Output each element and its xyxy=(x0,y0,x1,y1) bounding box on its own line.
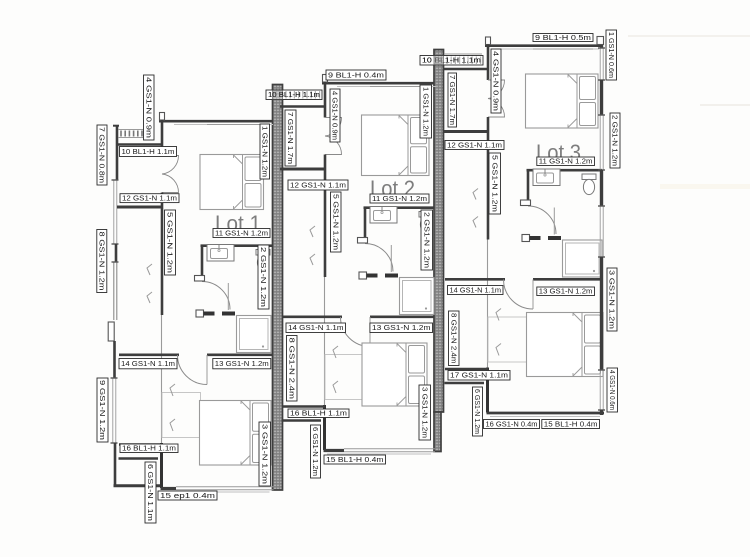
wall lot1 top xyxy=(159,120,273,123)
door lot2 bedroom2 leaf xyxy=(369,317,371,347)
fixture lot3 shower xyxy=(563,240,603,277)
svg-text:1 GS1-N 0.6m: 1 GS1-N 0.6m xyxy=(607,32,614,78)
svg-text:12 GS1-N 1.1m: 12 GS1-N 1.1m xyxy=(447,142,502,149)
wall lot3 partition A upper xyxy=(487,45,490,81)
label lot1 7 GS1-N 0.8m xyxy=(97,125,107,185)
svg-text:12 GS1-N 1.1m: 12 GS1-N 1.1m xyxy=(290,182,346,189)
wall lot1 exterior left seg2 xyxy=(115,244,118,262)
label lot2 14 GS1-N 1.1m xyxy=(286,323,346,333)
svg-text:16 BL1-H 1.1m: 16 BL1-H 1.1m xyxy=(122,446,176,453)
svg-text:8 GS1-N 1.2m: 8 GS1-N 1.2m xyxy=(97,232,104,291)
fixture lot3 wardrobe outline xyxy=(488,317,527,362)
label lot1 15 ep1 0.4m xyxy=(158,491,217,500)
party wall PW2 lower tail xyxy=(434,412,441,452)
svg-text:6 GS1-N 1.2m: 6 GS1-N 1.2m xyxy=(311,427,318,476)
wall lot2 bedroom2 top right xyxy=(370,315,434,318)
wall lot3 bathroom bottom stub right xyxy=(548,236,561,240)
label lot1 1 GS1-N 1.2m xyxy=(260,124,270,179)
wall lot1 bottom-left corner xyxy=(114,484,164,487)
wall lot1 bathroom bottom stub right xyxy=(222,312,235,316)
mark lot2 chevron1 xyxy=(333,346,338,358)
svg-text:15 BL1-H 0.4m: 15 BL1-H 0.4m xyxy=(544,421,598,428)
door lot2 entry double swing xyxy=(325,118,342,155)
svg-text:4 GS1-N 0.9m: 4 GS1-N 0.9m xyxy=(144,77,151,138)
svg-text:12 GS1-N 1.1m: 12 GS1-N 1.1m xyxy=(122,196,177,203)
wall lot3 hall bottom xyxy=(443,130,489,133)
wall lot2 top-left cap xyxy=(323,75,328,83)
svg-text:14 GS1-N 1.1m: 14 GS1-N 1.1m xyxy=(288,325,344,332)
wall lot1 partition A upper xyxy=(161,120,164,156)
label lot2 9 BL1-H 0.4m xyxy=(326,70,386,80)
fixture lot1 wardrobe outline xyxy=(162,393,201,438)
fixture lot1 sink xyxy=(207,245,234,262)
label lot2 6 GS1-N 1.2m xyxy=(311,425,321,478)
furniture lot1 bed2 xyxy=(200,401,272,466)
svg-text:4 GS1-N 0.9m: 4 GS1-N 0.9m xyxy=(331,91,338,140)
svg-text:3 GS1-N 1.2m: 3 GS1-N 1.2m xyxy=(260,424,267,484)
wall lot2 partition A upper xyxy=(324,82,327,118)
label lot1 9 GS1-N 1.2m xyxy=(97,378,108,442)
wall lot1 left top tick xyxy=(113,125,119,127)
wall lot1 exterior left seg4 xyxy=(114,443,117,487)
svg-text:1 GS1-N 1.2m: 1 GS1-N 1.2m xyxy=(260,126,267,177)
wall lot3 right seg2 xyxy=(600,80,603,115)
label lot2 15 BL1-H 0.4m xyxy=(324,455,386,464)
wall lot2 hall bottom xyxy=(280,168,326,171)
label lot1 8 GS1-N 1.2m xyxy=(97,230,107,293)
door lot1 bathroom swing xyxy=(202,282,230,310)
label lot3 1 GS1-N 0.6m xyxy=(606,30,617,80)
mark lot3 chevron4 hallway xyxy=(473,217,478,228)
party wall PW2 (Lot2/Lot3) main xyxy=(434,50,444,413)
mark lot1 chevron3 hallway xyxy=(147,264,152,275)
label lot3 9 BL1-H 0.5m xyxy=(533,34,593,42)
wall lot3 partition A lower xyxy=(487,117,490,240)
label lot1 14 GS1-N 1.1m xyxy=(119,359,177,369)
wall lot1 bathroom bottom stub post xyxy=(196,310,204,317)
wall lot1 bathroom door jamb post xyxy=(195,276,205,282)
wall lot1 bedroom2 top right xyxy=(207,353,273,356)
mark lot1 chevron1 xyxy=(170,384,175,396)
wall lot2 hallway bottom lower xyxy=(282,419,322,421)
label lot2 10 BL1-H 1.1m xyxy=(266,90,322,100)
wall lot1 top-left cap xyxy=(160,113,165,121)
label lot1 3 GS1-N 1.2m xyxy=(259,422,271,486)
svg-text:10 BL1-H 1.1m: 10 BL1-H 1.1m xyxy=(422,58,481,65)
label lot3 10 BL1-H 1.1m xyxy=(420,56,483,66)
svg-text:4 GS1-N 0.9m: 4 GS1-N 0.9m xyxy=(492,51,499,111)
label lot3 5 GS1-N 1.2m xyxy=(489,153,501,214)
wall lot1 partition A lower xyxy=(161,193,164,316)
mark lot3 chevron1 xyxy=(496,309,501,321)
door lot1 entry double swing xyxy=(162,156,179,193)
window lot1 left w2 xyxy=(111,378,118,443)
scan streak 3 xyxy=(660,184,750,189)
party wall PW1 (Lot1/Lot2) xyxy=(273,85,283,491)
wall lot2 bottom window line xyxy=(327,453,431,455)
label lot3 4 GS1-N 0.6m xyxy=(607,368,618,412)
svg-text:11 GS1-N 1.2m: 11 GS1-N 1.2m xyxy=(215,230,268,237)
window lot1 top wall glazing xyxy=(207,124,267,126)
svg-text:16 GS1-N 0.4m: 16 GS1-N 0.4m xyxy=(486,421,538,428)
wall lot2 top window line xyxy=(337,86,436,88)
fixture lot1 toilet xyxy=(256,250,270,271)
label lot3 12 GS1-N 1.1m xyxy=(445,141,504,150)
svg-text:15 ep1 0.4m: 15 ep1 0.4m xyxy=(160,493,215,500)
svg-text:11 GS1-N 1.2m: 11 GS1-N 1.2m xyxy=(539,159,593,166)
label lot3 17 GS1-N 1.1m xyxy=(448,371,510,381)
wall lot3 bathroom door jamb post xyxy=(521,200,531,206)
label lot2 1 GS1-N 1.2m xyxy=(420,85,432,138)
wall lot3 bedroom2 top right xyxy=(533,278,603,281)
label lot2 5 GS1-N 1.2m xyxy=(331,192,342,252)
wall lot3 bedroom2 top left xyxy=(445,278,505,281)
wall lot3 bathroom left xyxy=(527,170,530,206)
window lot2 louvre strip xyxy=(281,92,319,100)
label lot3 6 GS1-N 1.2m xyxy=(473,387,483,436)
label lot1 5 GS1-N 1.2m xyxy=(165,210,176,275)
wall lot1 hallway bottom lower xyxy=(119,457,159,459)
wall lot3 hallway bottom upper xyxy=(445,368,488,370)
wall lot2 partition A lower xyxy=(324,155,327,278)
label lot3 11 GS1-N 1.2m xyxy=(537,157,595,166)
door lot3 bedroom2 swing xyxy=(504,280,534,310)
svg-text:10 BL1-H 1.1m: 10 BL1-H 1.1m xyxy=(268,92,320,99)
door lot3 entry double swing xyxy=(488,80,505,117)
label lot3 13 GS1-N 1.2m xyxy=(537,287,595,296)
wall lot3 right seg3 xyxy=(600,170,603,206)
wall lot3 bedroom2 left thick xyxy=(486,368,489,413)
svg-text:7 GS1-N 1.7m: 7 GS1-N 1.7m xyxy=(448,75,455,125)
svg-text:5 GS1-N 1.2m: 5 GS1-N 1.2m xyxy=(166,212,173,273)
svg-text:5 GS1-N 1.2m: 5 GS1-N 1.2m xyxy=(490,155,497,212)
door lot3 bedroom2 leaf xyxy=(532,280,534,310)
wall lot3 bottom xyxy=(487,412,605,415)
fixture lot2 toilet xyxy=(419,212,433,233)
svg-text:6 GS1-N 1.1m: 6 GS1-N 1.1m xyxy=(146,464,153,521)
door lot2 bathroom leaf xyxy=(390,245,392,272)
label lot1 13 GS1-N 1.2m xyxy=(213,359,271,369)
window lot3 right w4 xyxy=(598,370,605,410)
door lot2 bathroom swing xyxy=(365,244,393,272)
furniture lot2 bed2 xyxy=(362,343,427,406)
label lot3 14 GS1-N 1.1m xyxy=(448,286,504,295)
label lot1 2 GS1-N 1.2m xyxy=(258,245,269,309)
wall lot1 bathroom top xyxy=(201,244,273,247)
label lot2 13 GS1-N 1.2m xyxy=(370,323,433,333)
wall lot1 bedroom2 left thick xyxy=(160,443,163,488)
label lot2 16 BL1-H 1.1m xyxy=(288,409,349,418)
svg-text:13 GS1-N 1.2m: 13 GS1-N 1.2m xyxy=(215,361,269,368)
wall lot1 top window line xyxy=(174,124,273,126)
svg-text:9 BL1-H 0.5m: 9 BL1-H 0.5m xyxy=(535,35,591,42)
wall lot2 bathroom bottom stub right xyxy=(385,274,398,278)
wall lot2 bathroom bottom stub left xyxy=(367,274,378,278)
fixture lot2 sink xyxy=(370,207,397,224)
wall lot2 bathroom bottom stub post xyxy=(359,272,367,279)
svg-text:17 GS1-N 1.1m: 17 GS1-N 1.1m xyxy=(450,373,508,380)
svg-text:13 GS1-N 1.2m: 13 GS1-N 1.2m xyxy=(539,289,593,296)
wall lot3 bathroom bottom stub left xyxy=(530,236,541,240)
svg-text:8 GS1-N 2.4m: 8 GS1-N 2.4m xyxy=(287,338,294,400)
wall lot3 bathroom top xyxy=(527,169,603,172)
window lot3 right w2 xyxy=(598,115,605,170)
furniture lot3 bed2 xyxy=(527,313,604,377)
wall lot1 hall top xyxy=(117,143,162,146)
svg-text:2 GS1-N 1.2m: 2 GS1-N 1.2m xyxy=(611,115,618,166)
label lot3 16 GS1-N 0.4m xyxy=(484,420,540,429)
svg-text:2 GS1-N 1.2m: 2 GS1-N 1.2m xyxy=(259,247,266,307)
furniture lot1 bed1 xyxy=(200,155,264,210)
label lot3 2 GS1-N 1.2m xyxy=(610,113,620,168)
window lot2 louvre dashes over label 10 xyxy=(286,91,320,99)
svg-text:14 GS1-N 1.1m: 14 GS1-N 1.1m xyxy=(450,287,502,294)
svg-text:6 GS1-N 1.2m: 6 GS1-N 1.2m xyxy=(473,389,480,434)
svg-text:9 GS1-N 1.2m: 9 GS1-N 1.2m xyxy=(98,380,105,440)
wall lot1 hall bottom xyxy=(117,206,163,209)
svg-text:7 GS1-N 1.7m: 7 GS1-N 1.7m xyxy=(286,112,293,164)
window lot3 right w3 xyxy=(598,206,605,257)
label lot1 10 BL1-H 1.1m xyxy=(120,147,177,157)
wall lot3 hallway bottom lower xyxy=(445,382,485,384)
mark lot1 chevron2 xyxy=(170,419,175,431)
fixture lot2 wardrobe outline xyxy=(325,355,364,400)
svg-text:14 GS1-N 1.1m: 14 GS1-N 1.1m xyxy=(121,361,175,368)
label lot2 12 GS1-N 1.1m xyxy=(288,180,348,190)
party wall PW1 overlay on lot2 label 10 xyxy=(273,90,283,100)
scan streak 2 xyxy=(700,104,750,106)
svg-text:15 BL1-H 0.4m: 15 BL1-H 0.4m xyxy=(326,457,384,464)
label lot3 3 GS1-N 1.2m xyxy=(607,268,617,331)
door lot1 bedroom2 leaf xyxy=(206,355,208,385)
furniture lot2 bed1 xyxy=(362,115,430,176)
wall lot2 hallway bottom upper xyxy=(282,405,325,407)
wall lot3 top xyxy=(485,44,603,47)
wall lot1 bathroom left xyxy=(201,245,204,281)
label lot3 7 GS1-N 1.7m xyxy=(448,73,457,127)
fixture lot1 shower xyxy=(237,316,272,353)
label lot3 8 GS1-N 2.4m xyxy=(449,311,460,366)
wall lot2 bathroom top xyxy=(364,206,435,209)
mark lot2 chevron2 xyxy=(333,381,338,393)
wall lot3 top-left cap xyxy=(486,37,491,45)
svg-text:3 GS1-N 1.2m: 3 GS1-N 1.2m xyxy=(420,387,427,438)
wall lot2 bedroom2 left thick xyxy=(323,405,326,450)
wall lot1 pier xyxy=(108,322,114,341)
svg-text:13 GS1-N 1.2m: 13 GS1-N 1.2m xyxy=(372,325,431,332)
wall lot3 right seg1 xyxy=(600,45,603,48)
svg-text:16 BL1-H 1.1m: 16 BL1-H 1.1m xyxy=(290,411,347,418)
window lot3 top wall glazing xyxy=(533,48,593,50)
window lot1 left w1b xyxy=(112,262,119,320)
wall lot1 exterior left seg1 xyxy=(116,125,119,180)
wall lot1 bottom thick corner xyxy=(161,487,177,490)
svg-text:10 BL1-H 1.1m: 10 BL1-H 1.1m xyxy=(122,149,175,156)
svg-text:11 GS1-N 1.2m: 11 GS1-N 1.2m xyxy=(372,196,427,203)
svg-text:4 GS1-N 0.6m: 4 GS1-N 0.6m xyxy=(608,370,615,410)
wall lot3 top window line xyxy=(500,48,599,50)
wall lot2 top xyxy=(322,82,434,85)
wall lot1 bottom window line xyxy=(164,491,270,493)
label lot1 4 GS1-N 0.9m xyxy=(144,75,155,140)
window lot1 left w1 xyxy=(112,180,119,244)
wall lot3 partition thin xyxy=(487,240,489,368)
fixture lot2 shower xyxy=(400,278,435,315)
label lot2 7 GS1-N 1.7m xyxy=(285,110,296,166)
fixture lot3 sink xyxy=(533,169,560,186)
door lot1 bathroom leaf xyxy=(227,283,229,310)
label lot2 11 GS1-N 1.2m xyxy=(370,194,429,203)
window lot3 louvre strip xyxy=(444,54,482,62)
label lot1 11 GS1-N 1.2m xyxy=(213,229,270,238)
wall lot3 top-right cap xyxy=(597,37,604,45)
fixture lot3 toilet xyxy=(582,174,596,195)
party wall PW2 overlay on lot3 label 10 xyxy=(434,56,444,66)
wall lot2 bathroom left xyxy=(364,207,367,243)
label lot2 8 GS1-N 2.4m xyxy=(287,336,298,402)
svg-text:5 GS1-N 1.2m: 5 GS1-N 1.2m xyxy=(331,194,338,250)
svg-text:2 GS1-N 1.2m: 2 GS1-N 1.2m xyxy=(422,212,429,268)
svg-text:1 GS1-N 1.2m: 1 GS1-N 1.2m xyxy=(421,87,428,136)
wall lot3 bathroom bottom stub post xyxy=(522,235,530,242)
wall lot1 bathroom bottom stub left xyxy=(204,312,215,316)
wall lot1 bottom thin (ep window) xyxy=(176,487,274,490)
label lot1 16 BL1-H 1.1m xyxy=(120,444,178,453)
door lot1 bedroom2 swing xyxy=(178,355,208,385)
mark lot2 chevron4 hallway xyxy=(310,254,315,265)
door lot3 bathroom swing xyxy=(528,206,556,234)
window lot3 right w1 xyxy=(598,48,605,80)
wall lot3 hall top xyxy=(443,68,488,71)
furniture lot3 bed1 xyxy=(526,74,599,128)
label lot3 15 BL1-H 0.4m xyxy=(542,420,600,429)
svg-text:8 GS1-N 2.4m: 8 GS1-N 2.4m xyxy=(449,313,456,364)
svg-text:7 GS1-N 0.8m: 7 GS1-N 0.8m xyxy=(98,127,105,183)
svg-text:3 GS1-N 1.2m: 3 GS1-N 1.2m xyxy=(608,270,615,329)
wall lot2 bathroom door jamb post xyxy=(358,238,368,244)
window lot2 top wall glazing xyxy=(370,86,430,88)
label lot1 6 GS1-N 1.1m xyxy=(145,462,156,523)
scan streak 1 xyxy=(628,35,750,37)
wall lot1 partition thin xyxy=(161,315,163,443)
wall lot2 partition thin xyxy=(324,277,326,405)
label lot2 2 GS1-N 1.2m xyxy=(421,210,433,270)
wall lot2 bottom thin (ep window) xyxy=(344,449,435,452)
label lot1 12 GS1-N 1.1m xyxy=(120,194,179,203)
wall lot1 exterior left seg3 xyxy=(113,341,116,378)
wall lot1 hallway bottom upper xyxy=(119,443,162,445)
wall lot3 right seg5 xyxy=(600,410,603,415)
mark lot1 chevron4 hallway xyxy=(147,292,152,303)
label lot2 4 GS1-N 0.9m xyxy=(330,89,340,142)
wall lot3 bottom window line xyxy=(490,416,600,418)
wall lot3 right seg4 xyxy=(600,257,603,370)
window lot3 louvre dashes over label 10 xyxy=(447,57,481,65)
wall lot2 bottom thick corner xyxy=(324,449,345,452)
window lot1 louvre strip xyxy=(118,130,143,138)
door lot3 bathroom leaf xyxy=(553,208,555,235)
wall lot2 hall top xyxy=(280,105,325,108)
mark lot3 chevron2 xyxy=(496,344,501,356)
wall lot1 bedroom2 top left xyxy=(119,353,179,356)
label lot2 3 GS1-N 1.2m xyxy=(419,385,431,440)
door lot2 bedroom2 swing xyxy=(341,317,371,347)
mark lot2 chevron3 hallway xyxy=(310,226,315,237)
svg-text:9 BL1-H 0.4m: 9 BL1-H 0.4m xyxy=(328,72,384,79)
label lot3 4 GS1-N 0.9m xyxy=(491,49,501,113)
wall lot2 bedroom2 top left xyxy=(282,315,342,318)
mark lot3 chevron3 hallway xyxy=(473,189,478,200)
